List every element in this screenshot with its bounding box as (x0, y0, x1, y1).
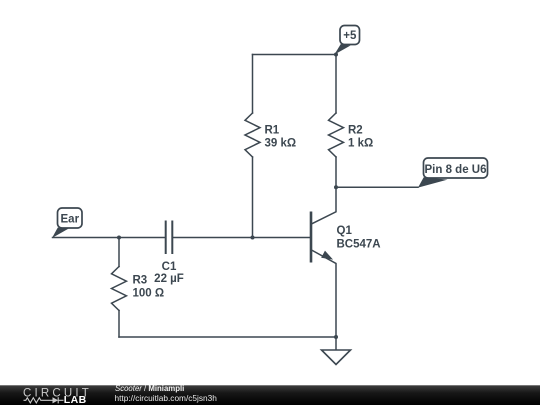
node top rail / R2 (334, 53, 338, 57)
power flag +5 (334, 26, 359, 55)
wire R3 top lead (118, 238, 120, 267)
svg-text:Ear: Ear (61, 213, 80, 225)
node emitter / ground (334, 335, 338, 339)
label Q1 value (337, 225, 381, 251)
svg-text:C1: C1 (162, 261, 177, 273)
wire top rail (253, 54, 337, 56)
capacitor C1 (166, 221, 173, 255)
label R3 value (133, 274, 165, 299)
svg-text:http://circuitlab.com/c5jsn3h: http://circuitlab.com/c5jsn3h (115, 393, 218, 403)
net flag Pin 8 de U6 (418, 158, 488, 188)
svg-text:22 µF: 22 µF (154, 273, 184, 285)
svg-text:R2: R2 (348, 125, 363, 137)
wire R3 bottom lead (118, 311, 120, 338)
svg-text:Scooter / Miniampli: Scooter / Miniampli (115, 384, 184, 393)
svg-text:BC547A: BC547A (337, 238, 381, 250)
svg-text:39 kΩ: 39 kΩ (265, 138, 297, 150)
wire Ear to capacitor (53, 237, 165, 239)
svg-text:1 kΩ: 1 kΩ (348, 138, 373, 150)
svg-text:LAB: LAB (64, 394, 87, 405)
svg-text:R1: R1 (265, 125, 280, 137)
resistor R2 (329, 113, 344, 157)
svg-text:R3: R3 (133, 274, 148, 286)
CircuitLab logo (23, 387, 92, 405)
ground (322, 337, 351, 365)
wire R1 bottom lead (252, 157, 254, 238)
resistor R1 (245, 113, 260, 157)
label C1 value (154, 261, 184, 285)
svg-text:+5: +5 (343, 30, 357, 42)
transistor Q1 (311, 187, 336, 337)
wire output to flag (336, 186, 418, 188)
svg-text:100 Ω: 100 Ω (133, 288, 165, 300)
wire R1 top lead (252, 55, 254, 114)
node R1 / base wire (251, 236, 255, 240)
label R2 value (348, 125, 373, 150)
net flag Ear (52, 208, 82, 238)
wire capacitor to base (173, 237, 310, 239)
label R1 value (265, 125, 297, 150)
resistor R3 (112, 267, 127, 311)
wire R2 bottom lead (335, 157, 337, 187)
node collector / output (334, 185, 338, 189)
node Ear / R3 (117, 236, 121, 240)
wire R2 top lead (335, 55, 337, 114)
svg-text:Pin 8 de U6: Pin 8 de U6 (425, 164, 487, 176)
wire bottom rail (119, 336, 336, 338)
svg-text:Q1: Q1 (337, 225, 353, 237)
footer bar (0, 385, 540, 405)
